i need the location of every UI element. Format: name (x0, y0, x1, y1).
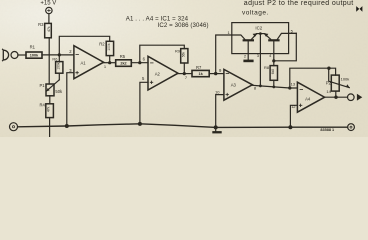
op-amp A2 (148, 56, 178, 90)
junction IC2 pin4 / R8 (272, 59, 275, 62)
resistor R3 (45, 23, 52, 84)
input terminal (11, 52, 18, 59)
wire IC2 pin3 to A3 output (259, 34, 261, 86)
wire A1 feedback top (59, 36, 109, 55)
wire A3 output to A4 pin13 (252, 85, 297, 88)
svg-text:83588 1: 83588 1 (320, 128, 334, 132)
svg-text:R2: R2 (99, 41, 105, 46)
junction bus / A4 pin12 (288, 125, 292, 129)
wiper arrow into P1 (46, 80, 59, 92)
op-amp A3 (224, 69, 253, 100)
wire IC2 pin5 stub (289, 32, 297, 34)
wire IC2 pin1 (216, 35, 232, 74)
wire A3 pin10 to ground bus (216, 95, 224, 128)
svg-text:voltage.: voltage. (242, 9, 269, 16)
node +15V terminal (46, 7, 52, 23)
junction P2 wiper node (327, 67, 330, 70)
svg-text:R5: R5 (120, 54, 126, 59)
svg-text:R3: R3 (38, 22, 44, 27)
wire R1 to A1 pin2 (42, 54, 74, 56)
svg-text:+15 V: +15 V (40, 1, 56, 7)
op-amp A4 (297, 82, 324, 112)
op-amp A1 (74, 46, 104, 79)
resistor R5 (116, 60, 132, 67)
svg-text:IC2 = 3086 (3046): IC2 = 3086 (3046) (158, 22, 209, 29)
svg-text:R9: R9 (175, 48, 180, 53)
output arrow marker (357, 94, 362, 101)
junction A4 pin13 node (288, 86, 291, 89)
potentiometer P2 (329, 68, 350, 97)
wire A2 pin5 to ground bus (140, 82, 148, 124)
ground bar IC2 pin2 (243, 60, 253, 63)
svg-text:10: 10 (215, 89, 220, 94)
ground bus wire (18, 124, 348, 128)
wire A2 feedback top (140, 45, 185, 63)
resistor R4 (46, 104, 54, 137)
resistor R2 (106, 41, 113, 62)
junction bus / A1 pin3 (65, 124, 69, 128)
wire A1 pin3 to ground bus (67, 73, 74, 126)
junction bus / A2 pin5 (138, 122, 142, 126)
input connector symbol (3, 49, 9, 60)
svg-text:adjust P2 to the required outp: adjust P2 to the required output (244, 0, 354, 7)
svg-text:100k: 100k (56, 62, 60, 70)
ground terminal right (348, 124, 355, 131)
transistor T2 (260, 33, 296, 61)
junction bus / A3 pin10 (214, 125, 218, 129)
resistor R6 (56, 55, 63, 80)
svg-text:47k: 47k (47, 26, 51, 32)
svg-text:P2: P2 (326, 81, 332, 86)
svg-text:47k: 47k (47, 106, 51, 112)
junction A1 output / R2 (108, 61, 111, 64)
wire input to R1 (18, 54, 26, 56)
svg-text:6k8: 6k8 (271, 69, 275, 74)
IC2 box (232, 23, 289, 54)
svg-text:R1: R1 (30, 44, 36, 49)
wire A1 output (104, 62, 116, 64)
svg-text:12: 12 (291, 104, 296, 109)
output terminal (348, 94, 355, 101)
svg-text:A4: A4 (305, 96, 311, 101)
article end marker (356, 6, 362, 12)
ground symbol center (212, 127, 221, 133)
wire A4 feedback to P2 (290, 68, 336, 88)
resistor R7 (192, 70, 209, 76)
svg-text:2k2: 2k2 (120, 61, 126, 65)
wire IC2 pin4 to pin5 (274, 33, 297, 60)
junction A3 output / pin3 wire (259, 85, 262, 88)
resistor R9 (181, 49, 188, 74)
svg-text:14: 14 (326, 89, 331, 94)
potentiometer P1 (46, 84, 54, 104)
svg-text:A1: A1 (80, 61, 86, 66)
junction A2 output / R9 (183, 72, 186, 75)
svg-text:56k: 56k (181, 51, 185, 57)
wire A4 output (325, 96, 348, 98)
svg-text:100k: 100k (107, 43, 111, 51)
svg-text:IC2: IC2 (255, 25, 262, 30)
svg-text:P1: P1 (39, 83, 45, 88)
junction A3 output / R8 bottom (272, 86, 275, 89)
wire A2 output (178, 73, 192, 75)
svg-text:R7: R7 (196, 65, 202, 70)
svg-text:R6: R6 (52, 56, 57, 61)
junction A2 input / feedback tap (138, 61, 141, 64)
junction IC2 emitters node (259, 32, 262, 35)
svg-text:R4: R4 (39, 103, 45, 108)
svg-text:A2: A2 (155, 72, 161, 77)
svg-text:100k: 100k (30, 54, 39, 58)
wire A4 pin12 to ground bus (290, 105, 297, 127)
junction A4 output / P2 bottom (334, 96, 337, 99)
text annotations (30, 0, 363, 132)
svg-text:13: 13 (291, 82, 296, 87)
wire R7 to A3 pin9 (209, 73, 224, 75)
svg-text:100k: 100k (341, 77, 350, 82)
junction A3 input / IC2 pin1 (214, 72, 217, 75)
ground terminal left (10, 123, 18, 131)
resistor R1 (26, 52, 42, 58)
resistor R8 (270, 61, 277, 87)
junction A1 inverting input node (58, 53, 61, 56)
svg-text:R8: R8 (264, 65, 269, 70)
svg-text:A3: A3 (231, 82, 237, 87)
transistor T1 (232, 33, 261, 59)
wire R5 to A2 (131, 62, 148, 64)
svg-text:50k: 50k (55, 89, 63, 94)
